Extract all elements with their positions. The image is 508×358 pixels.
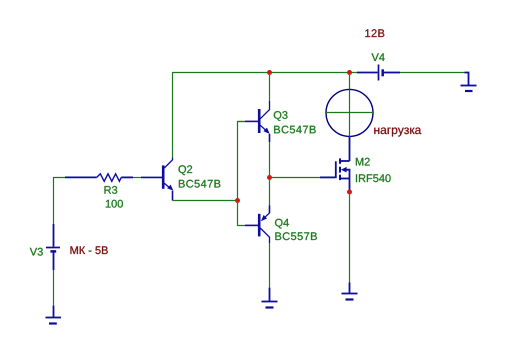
label V4: [372, 53, 385, 61]
label нагрузка: [374, 128, 421, 137]
wire MOSFET source to ground: [349, 192, 351, 283]
wire Q2 emitter to base node: [173, 200, 238, 202]
label BC547B of Q3: [274, 126, 316, 134]
wire V3 up to R3: [54, 178, 66, 225]
wire battery V4 right lead to top-right corner: [384, 72, 465, 74]
ground under Q4: [262, 288, 278, 308]
transistor Q4 (PNP BC557B): [245, 206, 270, 244]
label 100: [106, 200, 123, 208]
node dot emitter junction: [267, 175, 272, 180]
ground under MOSFET: [342, 283, 358, 300]
wire emitter node to MOSFET gate: [270, 177, 321, 179]
wire Q3 base from left vertical: [238, 121, 246, 123]
battery V3: [46, 224, 60, 270]
label Q3: [274, 111, 288, 121]
resistor R3: [65, 174, 133, 182]
node dot on rail above Q3: [267, 70, 272, 75]
transistor Q3 (NPN BC547B): [245, 101, 270, 142]
label IRF540: [356, 174, 391, 182]
node dot on rail above load: [347, 70, 352, 75]
node dot base drive: [235, 198, 240, 203]
label Q2: [179, 165, 193, 175]
wire rail down to Q3 collector: [269, 73, 271, 102]
label R3: [105, 186, 118, 194]
wire rail down to load: [349, 73, 351, 90]
wire V3 to ground: [53, 270, 55, 306]
wire top rail from Q2 collector up and right to battery V4: [173, 73, 358, 159]
label M2: [356, 158, 370, 166]
label Q4: [275, 219, 289, 229]
node dot MOSFET source: [347, 190, 352, 195]
ground top-right: [461, 73, 477, 92]
load (нагрузка) circle with cross: [326, 89, 373, 136]
wire Q4 collector down to ground: [269, 243, 271, 288]
battery V4: [357, 65, 400, 81]
wire Q3 emitter down to emitter node: [269, 142, 271, 178]
MOSFET M2 (IRF540): [336, 158, 350, 192]
label МК - 5В: [71, 246, 108, 254]
wire emitter node down to Q4 emitter: [269, 178, 271, 206]
label V3: [30, 248, 43, 256]
wire R3 to Q2 base: [133, 177, 141, 179]
label BC547B of Q2: [179, 180, 221, 188]
label BC557B of Q4: [275, 232, 317, 240]
ground under V3: [46, 306, 62, 324]
wire base node vertical to Q3 and Q4 bases: [238, 122, 246, 226]
transistor Q2 (NPN BC547B): [141, 158, 173, 201]
label 12В: [365, 29, 384, 37]
wire load bottom to MOSFET drain: [349, 137, 351, 162]
